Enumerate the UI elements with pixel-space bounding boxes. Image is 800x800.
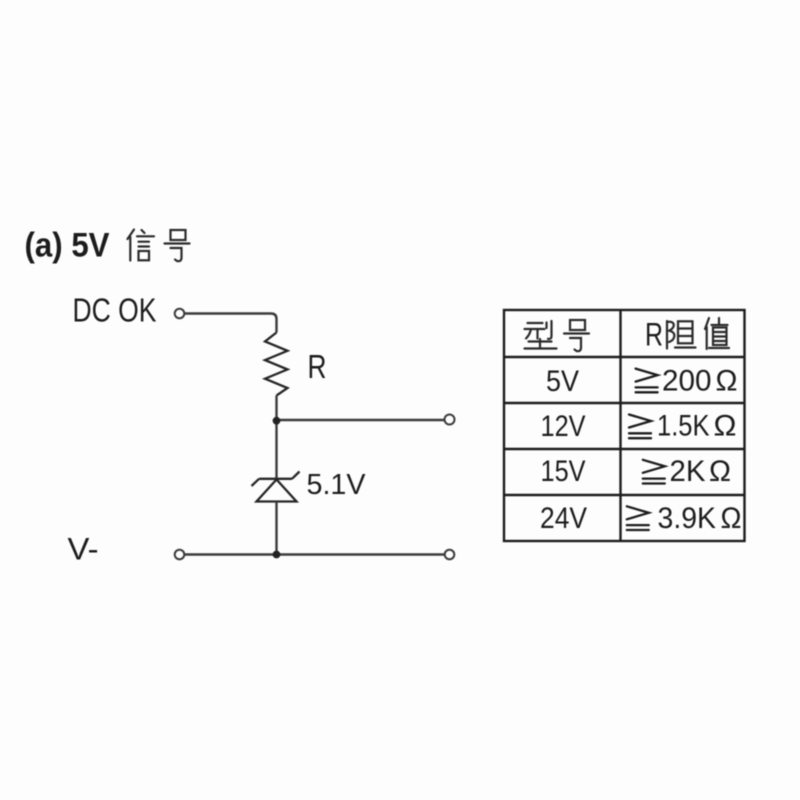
svg-text:Ω: Ω [709, 455, 731, 488]
svg-text:Ω: Ω [714, 409, 737, 442]
svg-text:R: R [645, 317, 663, 353]
svg-text:24V: 24V [540, 502, 587, 535]
svg-text:15V: 15V [541, 455, 586, 488]
svg-text:V-: V- [68, 531, 99, 567]
svg-text:(a) 5V: (a) 5V [25, 227, 110, 265]
svg-text:3.9K: 3.9K [658, 502, 717, 535]
svg-text:12V: 12V [541, 410, 586, 443]
svg-text:Ω: Ω [721, 502, 742, 535]
svg-text:R: R [308, 348, 327, 385]
svg-text:1.5K: 1.5K [657, 409, 710, 442]
svg-text:5.1V: 5.1V [307, 469, 367, 501]
svg-text:Ω: Ω [716, 365, 738, 398]
svg-text:5V: 5V [546, 365, 579, 398]
svg-text:2K: 2K [670, 455, 706, 488]
svg-text:DC OK: DC OK [73, 291, 157, 328]
svg-text:200: 200 [662, 365, 712, 398]
